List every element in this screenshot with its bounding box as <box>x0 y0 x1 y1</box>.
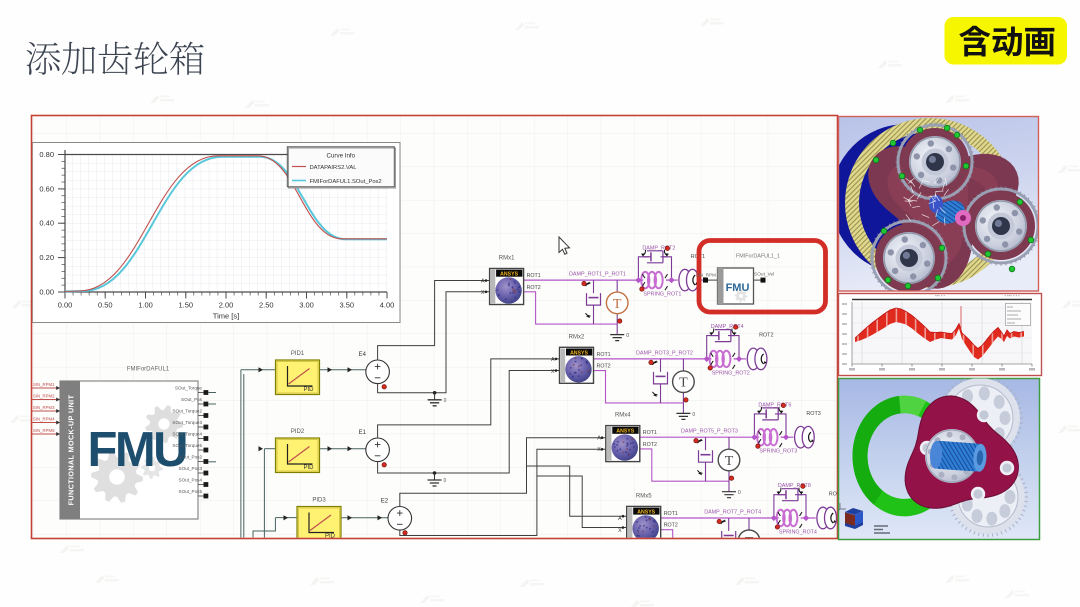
svg-text:SIN_RPM1: SIN_RPM1 <box>33 382 55 387</box>
svg-text:SIN_RPM5: SIN_RPM5 <box>33 428 55 433</box>
svg-text:0.00: 0.00 <box>58 301 73 310</box>
svg-text:RMx1: RMx1 <box>499 256 515 262</box>
svg-text:0.60: 0.60 <box>39 184 54 193</box>
svg-text:SOut_Torque4: SOut_Torque4 <box>172 432 202 437</box>
svg-text:SOut_Vel: SOut_Vel <box>754 272 774 278</box>
svg-text:ROT2: ROT2 <box>759 333 773 339</box>
svg-text:E1: E1 <box>359 430 367 436</box>
svg-text:FMIForDAFUL1_1: FMIForDAFUL1_1 <box>736 254 780 260</box>
svg-text:FMIForDAFUL1.SOut_Pos2: FMIForDAFUL1.SOut_Pos2 <box>310 179 382 185</box>
svg-text:4.00: 4.00 <box>380 301 395 310</box>
svg-text:DAMP_ROT5_P_ROT3: DAMP_ROT5_P_ROT3 <box>681 429 738 435</box>
svg-text:A: A <box>618 516 622 522</box>
svg-text:SPRING_ROT1: SPRING_ROT1 <box>643 292 681 298</box>
svg-text:A: A <box>551 357 555 363</box>
svg-text:*** * *: *** * * <box>935 294 945 299</box>
svg-text:DAMP_ROT7_P_ROT4: DAMP_ROT7_P_ROT4 <box>704 510 761 516</box>
svg-text:SOut_Torque2: SOut_Torque2 <box>172 409 202 414</box>
svg-text:2.50: 2.50 <box>259 301 274 310</box>
svg-text:0: 0 <box>626 333 629 339</box>
svg-text:X: X <box>618 528 622 534</box>
svg-text:RMx4: RMx4 <box>615 413 631 419</box>
svg-text:X: X <box>481 290 485 296</box>
svg-text:0.40: 0.40 <box>39 219 54 228</box>
svg-text:SIN_RPM2: SIN_RPM2 <box>33 394 55 399</box>
svg-text:DAMP_ROT8: DAMP_ROT8 <box>778 483 811 489</box>
svg-text:DAMP_ROT4: DAMP_ROT4 <box>711 324 744 330</box>
svg-text:ANSYS: ANSYS <box>570 350 588 356</box>
svg-text:SIN_RPM: SIN_RPM <box>696 273 717 278</box>
svg-text:PID: PID <box>303 387 314 393</box>
svg-text:X: X <box>551 369 555 375</box>
svg-text:E4: E4 <box>359 352 367 358</box>
svg-text:SOut_Pos5: SOut_Pos5 <box>179 489 203 494</box>
svg-text:SOut_Torque3: SOut_Torque3 <box>172 420 202 425</box>
svg-text:SOut_Torque5: SOut_Torque5 <box>172 443 202 448</box>
svg-text:A: A <box>597 435 601 441</box>
svg-text:0: 0 <box>692 412 695 418</box>
svg-text:FUNCTIONAL MOCK-UP UNIT: FUNCTIONAL MOCK-UP UNIT <box>67 394 76 505</box>
svg-text:3.50: 3.50 <box>339 301 354 310</box>
svg-text:0.20: 0.20 <box>39 253 54 262</box>
svg-text:DAMP_ROT6: DAMP_ROT6 <box>758 402 791 408</box>
svg-text:0.00: 0.00 <box>39 287 54 296</box>
svg-text:T: T <box>679 376 688 391</box>
svg-text:PID3: PID3 <box>312 498 326 504</box>
svg-text:SIN_RPM4: SIN_RPM4 <box>33 417 55 422</box>
svg-text:PID1: PID1 <box>291 351 305 357</box>
svg-text:FMU: FMU <box>726 282 750 294</box>
svg-text:ROT2: ROT2 <box>597 364 611 370</box>
svg-text:SOut_Pos2: SOut_Pos2 <box>179 455 203 460</box>
svg-text:DATAPAIRS2.VAL: DATAPAIRS2.VAL <box>310 165 358 171</box>
svg-text:DAMP_ROT3_P_ROT2: DAMP_ROT3_P_ROT2 <box>636 350 693 356</box>
svg-text:RMx2: RMx2 <box>569 334 585 340</box>
svg-text:ROT2: ROT2 <box>664 523 678 529</box>
svg-text:SOut_Pos: SOut_Pos <box>181 397 203 402</box>
svg-text:0: 0 <box>444 398 447 404</box>
svg-text:FMIForDAFUL1: FMIForDAFUL1 <box>127 367 170 373</box>
svg-text:ROT1: ROT1 <box>643 430 657 436</box>
svg-text:PID2: PID2 <box>291 429 305 435</box>
svg-text:ROT1: ROT1 <box>527 273 541 279</box>
svg-text:DAMP_ROT2: DAMP_ROT2 <box>642 245 675 251</box>
svg-text:Curve Info: Curve Info <box>327 153 356 160</box>
svg-text:2.00: 2.00 <box>219 301 234 310</box>
svg-text:RMx5: RMx5 <box>636 493 652 499</box>
svg-text:E2: E2 <box>381 498 389 504</box>
svg-text:3.00: 3.00 <box>299 301 314 310</box>
svg-text:SOut_Torque: SOut_Torque <box>175 386 203 391</box>
svg-text:* *** * * *: * *** * * * <box>1004 294 1020 299</box>
svg-text:T: T <box>725 454 734 469</box>
svg-text:0.50: 0.50 <box>98 301 113 310</box>
svg-text:SIN_RPM3: SIN_RPM3 <box>33 405 55 410</box>
svg-text:SOut_Pos4: SOut_Pos4 <box>179 478 203 483</box>
svg-text:ANSYS: ANSYS <box>616 429 634 435</box>
svg-text:ANSYS: ANSYS <box>500 272 518 278</box>
svg-text:ROT1: ROT1 <box>597 352 611 358</box>
svg-text:1.50: 1.50 <box>178 301 193 310</box>
svg-text:ROT2: ROT2 <box>527 285 541 291</box>
svg-text:SPRING_ROT4: SPRING_ROT4 <box>779 530 817 536</box>
svg-text:SPRING_ROT2: SPRING_ROT2 <box>712 370 750 376</box>
svg-text:0: 0 <box>444 478 447 484</box>
svg-text:ROT2: ROT2 <box>643 442 657 448</box>
svg-text:DAMP_ROT1_P_ROT1: DAMP_ROT1_P_ROT1 <box>569 272 626 278</box>
svg-text:ANSYS: ANSYS <box>637 509 655 515</box>
svg-text:A: A <box>481 278 485 284</box>
svg-text:T: T <box>613 297 622 312</box>
svg-text:ROT3: ROT3 <box>806 411 820 417</box>
svg-text:ROT1: ROT1 <box>664 511 678 517</box>
svg-text:0: 0 <box>738 490 741 496</box>
svg-text:PID: PID <box>303 465 314 471</box>
svg-text:0.80: 0.80 <box>39 150 54 159</box>
svg-text:SOut_Pos3: SOut_Pos3 <box>179 466 203 471</box>
svg-text:Time [s]: Time [s] <box>213 312 239 321</box>
svg-text:SPRING_ROT3: SPRING_ROT3 <box>759 449 797 455</box>
svg-text:1.00: 1.00 <box>138 301 153 310</box>
svg-text:X: X <box>597 447 601 453</box>
